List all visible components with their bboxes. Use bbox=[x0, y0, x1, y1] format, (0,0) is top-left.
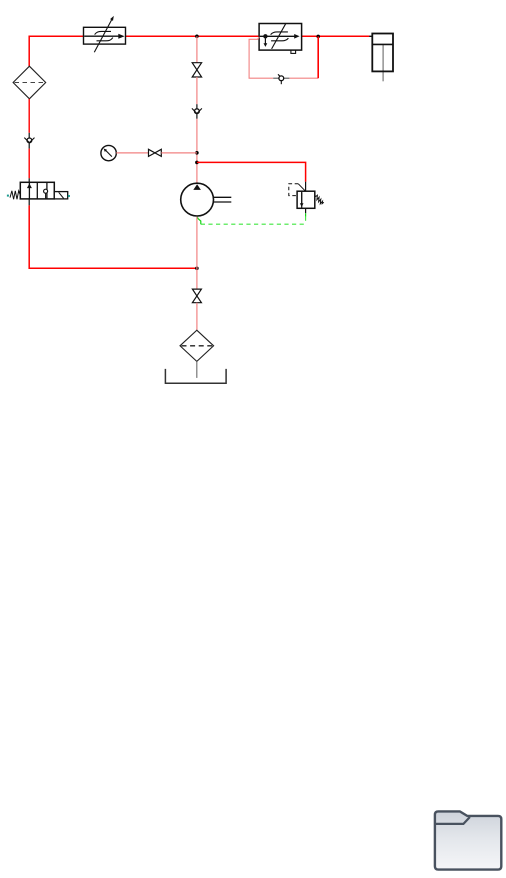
wire left vertical below filter bbox=[28, 99, 30, 133]
shut-off valve SV1 (horizontal) bbox=[149, 149, 162, 156]
wire bypass loop bottom segment right of check ball bbox=[289, 77, 318, 79]
wire bypass loop left (salmon) bbox=[249, 37, 273, 78]
flow control valve with check FCV2 bbox=[259, 24, 302, 54]
pilot line (dashed) bbox=[289, 184, 299, 196]
spring (right) bbox=[316, 195, 324, 204]
valve V1 bottom stub bbox=[28, 199, 30, 206]
wire SV1 to riser bbox=[161, 152, 197, 154]
wire top horizontal between FCV1 and junction bbox=[126, 35, 260, 37]
shut-off valve SV2 (vertical) bbox=[192, 63, 201, 77]
pressure relief valve RV1 bbox=[289, 184, 324, 209]
connection marker right bbox=[68, 195, 70, 197]
check valve CV2 bbox=[192, 104, 202, 119]
junction node gauge branch bbox=[195, 151, 199, 155]
folder icon bbox=[435, 811, 501, 869]
filter F1 (left) bbox=[13, 66, 46, 99]
filter F2 (bottom) bbox=[180, 330, 214, 361]
wire riser top segment bbox=[196, 36, 198, 62]
wire relief branch horizontal and down bbox=[197, 162, 306, 181]
wire riser between SV2 and CV2 bbox=[196, 77, 198, 104]
drain solid green at relief bbox=[305, 213, 307, 216]
wire left vertical above valve V1 bbox=[28, 149, 30, 179]
pressure gauge G1 bbox=[101, 145, 116, 160]
flow control valve FCV1 bbox=[84, 16, 126, 52]
wire top horizontal after FCV2 bbox=[302, 35, 370, 37]
shut-off valve SV3 (vertical) bbox=[192, 289, 201, 303]
valve V1 top stub bbox=[28, 178, 30, 182]
junction node relief branch bbox=[195, 161, 199, 165]
wire bypass loop right vertical bbox=[317, 36, 319, 78]
relief valve top stub bbox=[305, 182, 307, 192]
drain solid green at pump bbox=[198, 217, 201, 224]
wire pump bottom to SV3 bbox=[196, 217, 198, 289]
drain dashed green vertical bbox=[305, 217, 307, 225]
directional valve V1 (2-position, spring return, lever) bbox=[7, 182, 70, 199]
tank T1 bbox=[165, 369, 226, 383]
junction node after FCV2 bbox=[316, 35, 320, 39]
wire lower-left L to pump riser bbox=[29, 205, 197, 268]
wire riser between CV2 and pump bbox=[196, 119, 198, 183]
connection marker left bbox=[7, 195, 9, 197]
junction node on bottom run bbox=[195, 267, 199, 271]
junction node at top of pump riser bbox=[195, 35, 199, 39]
drain dashed green horizontal bbox=[201, 223, 306, 225]
lever actuator (right) bbox=[54, 192, 67, 199]
wire top-left horizontal P line bbox=[29, 36, 83, 66]
wire gauge to shutoff SV1 bbox=[116, 152, 148, 154]
relief valve bottom stub bbox=[305, 208, 307, 213]
cylinder (single acting, vertical) bbox=[372, 34, 393, 82]
pump P1 bbox=[181, 183, 232, 216]
check valve CV1 bbox=[24, 133, 34, 149]
suction pipe into tank bbox=[196, 361, 198, 378]
check ball valve on bypass loop bbox=[273, 74, 289, 84]
wire cylinder stub bbox=[369, 35, 372, 37]
spring (left actuator) bbox=[10, 191, 20, 200]
wire SV3 to filter F2 bbox=[196, 303, 198, 331]
